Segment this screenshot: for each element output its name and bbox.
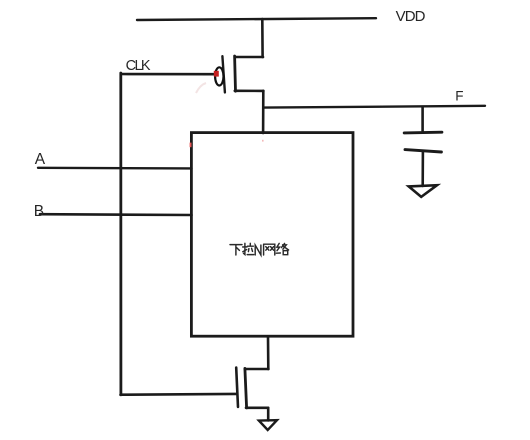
svg-text:CLK: CLK (126, 58, 151, 74)
svg-text:VDD: VDD (396, 8, 426, 25)
svg-text:F: F (455, 88, 463, 103)
svg-text:B: B (34, 203, 44, 220)
svg-text:A: A (35, 151, 46, 168)
